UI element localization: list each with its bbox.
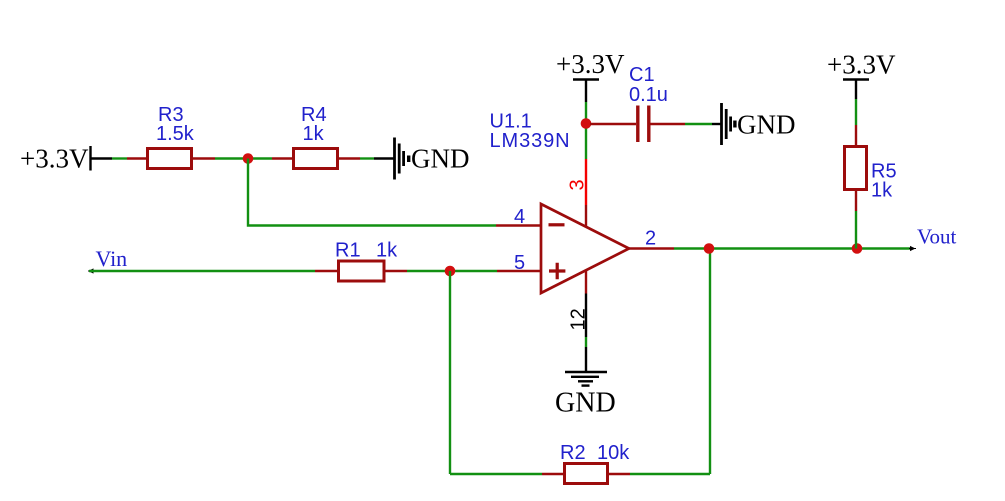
pin 2: [629, 247, 674, 249]
wire: [855, 211, 857, 249]
ground GND left: [374, 138, 470, 180]
svg-text:C1: C1: [629, 64, 655, 86]
svg-text:5: 5: [514, 252, 525, 274]
svg-text:0.1u: 0.1u: [629, 84, 668, 106]
wire: [407, 270, 497, 272]
svg-text:+3.3V: +3.3V: [20, 144, 89, 174]
op-amp U1.1: [490, 111, 675, 331]
junction node: [243, 153, 254, 164]
wire: [674, 247, 912, 249]
net Vin: [88, 246, 315, 274]
wire: [248, 159, 496, 226]
resistor R2: [542, 442, 630, 484]
svg-text:1k: 1k: [303, 123, 325, 145]
resistor R5: [845, 125, 897, 211]
resistor R1: [315, 240, 407, 282]
wire: [585, 337, 587, 347]
svg-text:10k: 10k: [597, 442, 630, 464]
svg-text:3: 3: [567, 179, 589, 190]
svg-text:GND: GND: [737, 110, 796, 140]
svg-text:1k: 1k: [376, 240, 398, 262]
wire: [360, 157, 374, 159]
capacitor C1: [590, 64, 685, 142]
resistor R3: [127, 104, 215, 169]
svg-text:GND: GND: [555, 388, 616, 419]
pin 12: [585, 270, 587, 294]
svg-text:+3.3V: +3.3V: [827, 50, 896, 80]
junction node: [704, 243, 715, 254]
power +3.3V left: [20, 144, 112, 174]
ground GND bottom: [555, 347, 616, 419]
svg-text:Vin: Vin: [96, 246, 128, 271]
power +3.3V top: [556, 49, 625, 102]
wire: [585, 294, 587, 338]
wire: [449, 271, 451, 474]
wire: [112, 157, 127, 159]
svg-text:1.5k: 1.5k: [156, 123, 195, 145]
wire: [709, 249, 711, 475]
pin 4: [496, 224, 541, 226]
svg-text:1k: 1k: [871, 180, 893, 202]
svg-text:2: 2: [645, 228, 656, 250]
svg-text:R2: R2: [560, 442, 586, 464]
net Vout: [909, 225, 956, 252]
svg-text:+3.3V: +3.3V: [556, 49, 625, 79]
svg-text:R1: R1: [335, 240, 361, 262]
svg-text:4: 4: [514, 206, 525, 228]
wire: [630, 473, 710, 475]
pin 3: [585, 159, 587, 205]
wire: [450, 473, 542, 475]
junction node: [852, 243, 863, 254]
power +3.3V right: [827, 50, 896, 100]
wire: [685, 123, 712, 125]
svg-text:Vout: Vout: [917, 225, 956, 249]
junction node: [581, 118, 592, 129]
wire: [215, 157, 272, 159]
wire: [855, 99, 857, 125]
pin 5: [497, 270, 541, 272]
resistor R4: [272, 104, 360, 169]
wire: [585, 102, 587, 159]
ground GND top: [712, 103, 796, 145]
svg-text:LM339N: LM339N: [490, 130, 571, 152]
junction node: [445, 266, 456, 277]
svg-text:GND: GND: [411, 144, 470, 174]
